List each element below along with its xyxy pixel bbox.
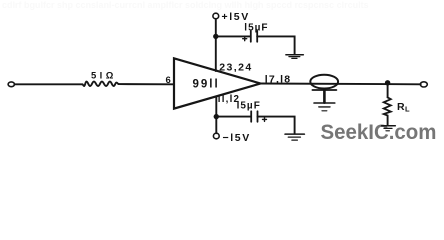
svg-text:−l5V: −l5V (223, 132, 251, 144)
resistor RL zigzag (384, 97, 391, 115)
-15V terminal (213, 133, 219, 139)
junction dot output (385, 80, 390, 85)
svg-text:R: R (397, 101, 405, 113)
ground bottom supply (285, 133, 304, 135)
plus sign bottom cap (263, 118, 267, 120)
ground coax (314, 102, 335, 104)
ground RL (382, 125, 396, 127)
resistor R1 51ohm (82, 82, 118, 86)
output wire (261, 83, 421, 86)
coax base bar (312, 89, 336, 91)
RL lead top (387, 83, 389, 97)
wire -15V vertical (215, 96, 217, 133)
svg-text:L: L (405, 105, 410, 114)
junction dot top (213, 34, 218, 39)
coax stem (323, 90, 326, 103)
junction dot bottom (214, 114, 219, 119)
+15V terminal (213, 13, 219, 19)
svg-text:6: 6 (166, 75, 171, 86)
input terminal (8, 82, 14, 87)
svg-text:SeekIC.com: SeekIC.com (321, 121, 437, 144)
wire cap to ground top (257, 36, 294, 54)
ground top (286, 54, 303, 56)
RL lead bottom (387, 116, 389, 126)
wire +15V vertical (215, 19, 217, 71)
svg-text:l5µF: l5µF (244, 22, 268, 33)
wire top cap branch (216, 35, 250, 37)
wire resistor to op-amp (119, 83, 174, 85)
capacitor C2 15uF plates (250, 111, 252, 122)
svg-text:23,24: 23,24 (219, 62, 252, 74)
svg-text:l5µF: l5µF (237, 101, 261, 112)
svg-text:5lΩ: 5lΩ (91, 70, 117, 81)
wire input to resistor (14, 83, 82, 85)
svg-text:+l5V: +l5V (222, 11, 250, 23)
op-amp U1 9911 triangle (174, 58, 261, 108)
wire bottom cap branch (216, 116, 250, 118)
wire cap to ground bottom (258, 117, 295, 134)
capacitor C1 15uF plates (250, 31, 252, 42)
svg-text:l7,l8: l7,l8 (265, 74, 291, 86)
svg-text:99ll: 99ll (193, 79, 220, 91)
coax connector ellipse (310, 75, 338, 89)
output terminal (420, 82, 427, 87)
svg-text:cdlrf bgulfcr shp ccnslanl-cu: cdlrf bgulfcr shp ccnslanl-currcnl amplf… (2, 0, 369, 10)
plus sign top cap (243, 38, 247, 40)
